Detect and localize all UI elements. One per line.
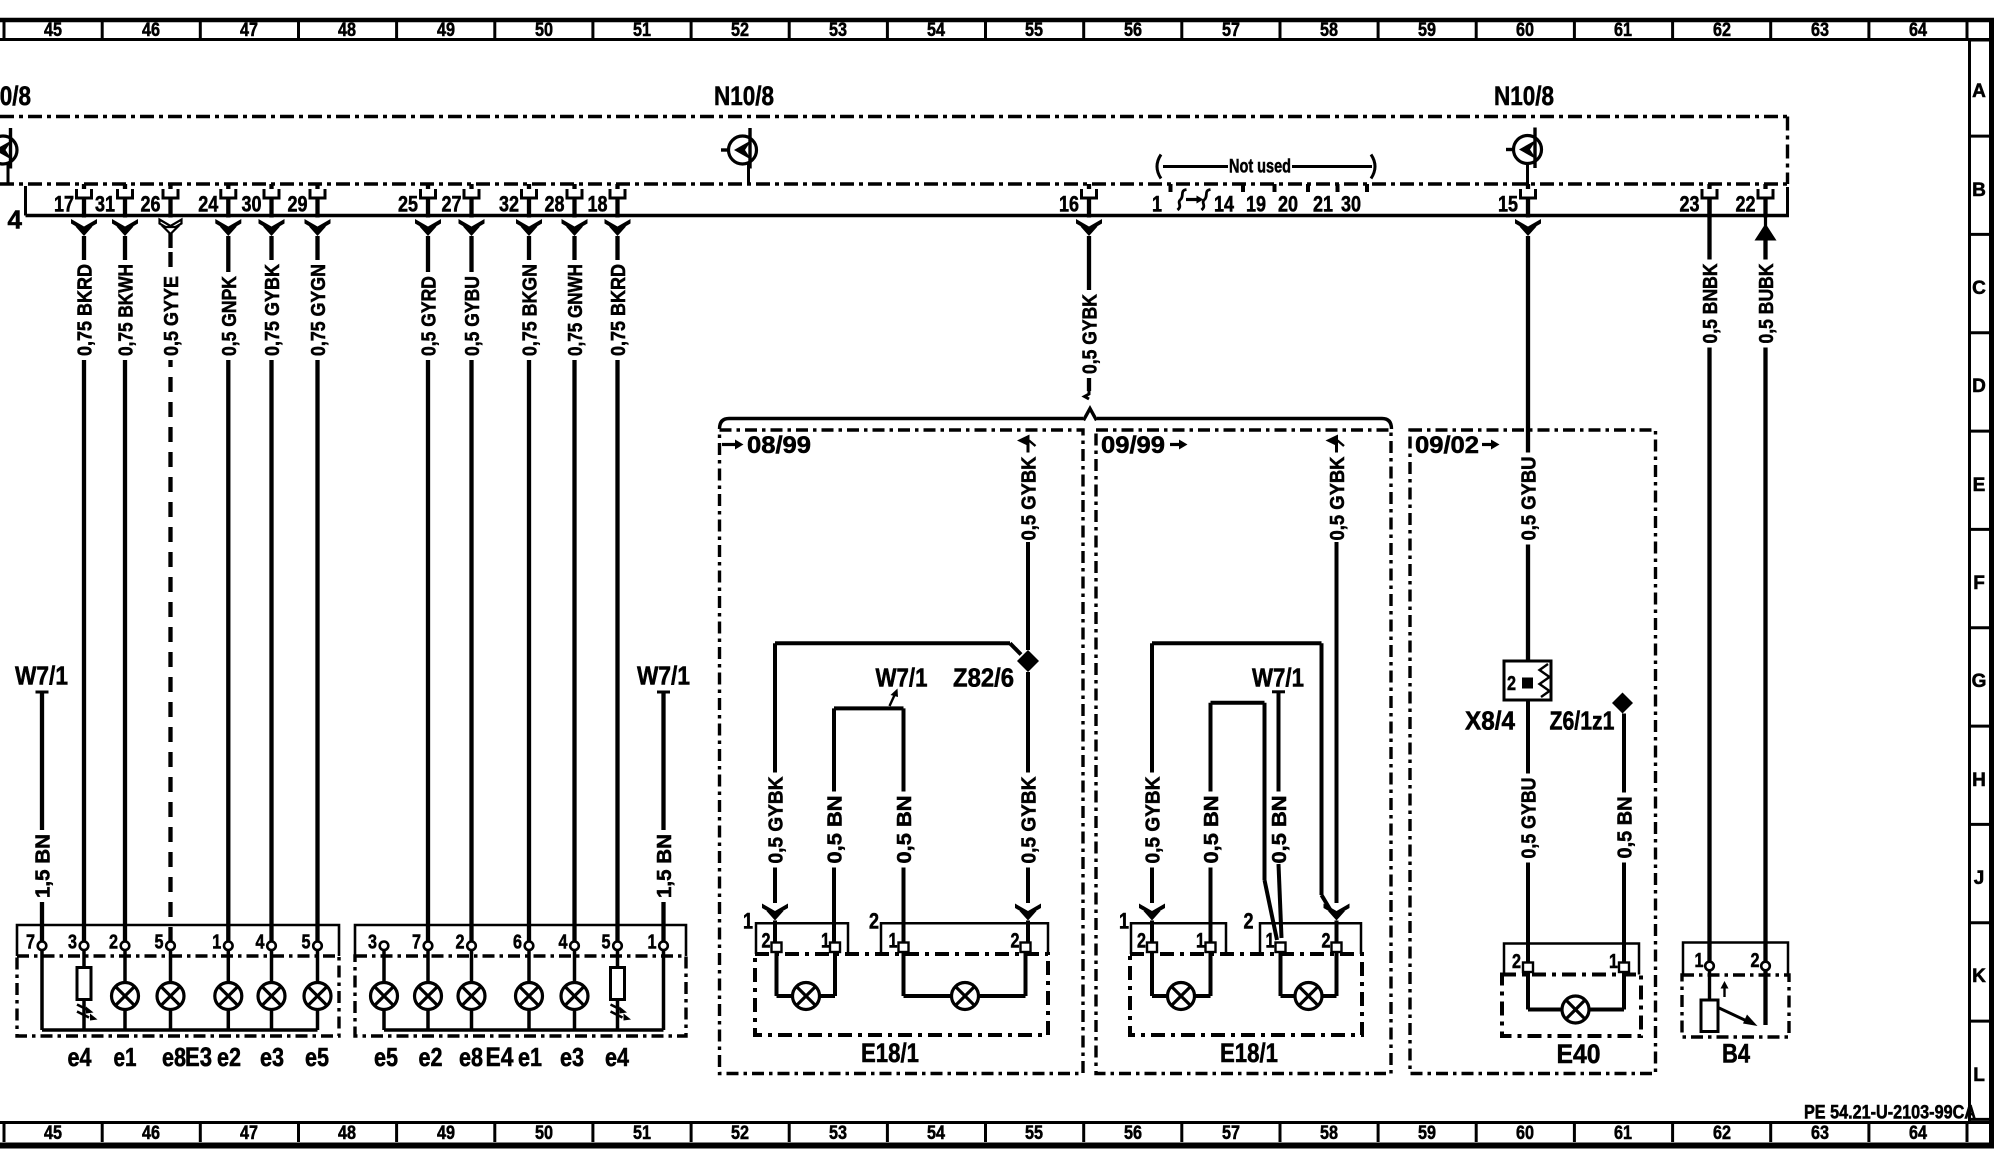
svg-text:5: 5 [302,932,311,954]
svg-text:F: F [1973,573,1985,594]
wire 0,5 GYBK (left lamp feed, 08/99) [762,643,1021,942]
svg-text:E18/1: E18/1 [861,1038,919,1068]
E3 internal bus wire [42,950,318,1030]
svg-text:1: 1 [648,932,657,954]
wire arrow at pin 17 [71,219,97,236]
E3 bulb e3 [258,950,285,1030]
wire arrow at pin 16 [1076,219,1102,236]
N10/8 pin 27 [442,184,480,218]
B4 connector [1683,943,1788,976]
wire 0,5 BUBK from pin 22 to B4 [1756,241,1778,1026]
svg-text:63: 63 [1811,1123,1829,1144]
svg-text:B: B [1972,180,1986,201]
wire 0,5 GYRD from pin to lamp unit (x=428) [419,236,441,942]
E3 bulb e8 [157,950,184,1030]
N10/8 pin 23 [1680,184,1718,218]
svg-text:0,5 GYBK: 0,5 GYBK [766,776,788,864]
svg-text:2: 2 [1512,951,1521,973]
svg-text:0,5 GYBU: 0,5 GYBU [1519,457,1541,541]
wire 0,75 GNWH from pin to lamp unit (x=574.5) [565,236,587,942]
wire 0,5 GYBK (from branch to Z82/6 and lamp, 08/99) [1015,435,1041,943]
svg-text:0,5 GYBK: 0,5 GYBK [1080,294,1102,374]
svg-text:2: 2 [456,932,465,954]
svg-text:61: 61 [1614,20,1632,41]
svg-text:1: 1 [1152,192,1162,217]
svg-text:N10/8: N10/8 [1494,81,1554,111]
svg-text:D: D [1972,376,1986,397]
svg-text:6: 6 [513,932,522,954]
svg-text:4: 4 [256,932,266,954]
"Not used" bracket over unused pins [1157,155,1375,179]
svg-text:J: J [1974,868,1985,889]
svg-text:3: 3 [68,932,77,954]
svg-text:31: 31 [95,192,115,217]
svg-text:0,75 BKWH: 0,75 BKWH [116,264,138,356]
E3 bulb e1 [112,950,139,1030]
svg-text:0,5 GYBK: 0,5 GYBK [1327,456,1349,541]
label 09/02 [1415,432,1500,459]
wire arrow at pin 25 [415,219,441,236]
svg-text:4: 4 [559,932,569,954]
label 08/99 [722,432,811,459]
E3 pin 4 terminal [256,932,276,954]
svg-text:1: 1 [743,909,753,934]
svg-text:16: 16 [1059,192,1079,217]
svg-text:e3: e3 [260,1042,284,1072]
E3 pin 3 terminal [68,932,88,954]
E40 bulb [1528,972,1624,1023]
label 09/99 [1101,432,1188,459]
svg-text:1,5 BN: 1,5 BN [654,834,676,898]
E4 pin 4 terminal [559,932,579,954]
E18/1 connector 2 (09/99) [1244,909,1362,955]
svg-text:2: 2 [1751,950,1760,972]
svg-text:45: 45 [44,20,62,41]
wire 0,5 BNBK from pin 23 to B4 [1700,198,1722,962]
svg-text:52: 52 [731,20,749,41]
svg-text:E3: E3 [185,1042,212,1072]
unused pin 1 tick [1152,184,1171,217]
E3 pin 1 terminal [212,932,232,954]
wire 0,75 GYBK from pin to lamp unit (x=271.5) [262,236,284,942]
E18/1 housing (09/99) [1130,954,1362,1035]
jumper squiggle between pins 1 and 14 [1178,190,1211,211]
svg-text:22: 22 [1736,192,1756,217]
connector X8/4 [1504,661,1551,700]
model year box 09/99 [1096,430,1391,1074]
unused pin 19 tick [1246,184,1275,217]
svg-text:59: 59 [1418,20,1436,41]
svg-text:0,5 GYBU: 0,5 GYBU [1519,778,1541,859]
svg-text:0,75 BKGN: 0,75 BKGN [520,264,542,356]
svg-text:53: 53 [829,1123,847,1144]
svg-text:0,5 GNPK: 0,5 GNPK [219,276,241,356]
svg-text:0,5 BN: 0,5 BN [825,796,847,864]
lamp unit E4 housing (dash-dot) [355,956,686,1036]
svg-text:K: K [1972,966,1986,987]
E4 illumination resistor (pin 5) [611,950,632,1030]
svg-text:5: 5 [155,932,164,954]
svg-text:18: 18 [588,192,608,217]
E18/1 connector 1 (08/99) [743,909,848,955]
unused pin 21 tick [1313,184,1338,217]
svg-text:19: 19 [1246,192,1266,217]
svg-text:E4: E4 [486,1042,514,1072]
svg-text:Z6/1z1: Z6/1z1 [1550,706,1615,736]
svg-text:W7/1: W7/1 [637,661,690,691]
E18/1 bulb left (08/99) [777,952,836,1010]
E3 bulb e5 [304,950,331,1030]
wire 0,5 GYBK from pin 16 [1080,236,1102,399]
N10/8 pin 32 [499,184,537,218]
unused pin 30 tick [1341,184,1367,217]
svg-text:62: 62 [1713,20,1731,41]
svg-text:55: 55 [1025,20,1043,41]
svg-text:15: 15 [1498,192,1518,217]
svg-text:57: 57 [1222,1123,1240,1144]
svg-text:55: 55 [1025,1123,1043,1144]
svg-text:0,75 GYBK: 0,75 GYBK [262,263,284,356]
svg-text:24: 24 [198,192,219,217]
svg-text:5: 5 [602,932,611,954]
E3 pin 2 terminal [109,932,129,954]
svg-text:51: 51 [633,1123,651,1144]
wire 0,75 BKRD from pin to lamp unit (x=84) [75,236,97,942]
E4 bulb e5 [371,950,398,1030]
svg-text:0,5 BN: 0,5 BN [894,796,916,864]
wire arrow at pin 31 [112,219,138,236]
svg-text:0,75 GYGN: 0,75 GYGN [308,264,330,356]
svg-text:0,5 GYBK: 0,5 GYBK [1019,456,1041,541]
E3 illumination resistor (pin 3) [77,950,98,1030]
svg-text:0,5 GYRD: 0,5 GYRD [419,276,441,356]
svg-text:47: 47 [240,20,258,41]
svg-text:09/02: 09/02 [1415,432,1479,459]
wire 0,75 BKRD from pin to lamp unit (x=617.5) [608,236,630,942]
E18/1 connector 2 (08/99) [869,909,1048,955]
svg-text:52: 52 [731,1123,749,1144]
svg-text:45: 45 [44,1123,62,1144]
svg-text:54: 54 [927,1123,945,1144]
E4 bulb e3 [561,950,588,1030]
svg-text:PE 54.21-U-2103-99CA: PE 54.21-U-2103-99CA [1804,1103,1976,1124]
svg-text:58: 58 [1320,1123,1338,1144]
B4 wiper arm [1718,1008,1758,1027]
svg-text:64: 64 [1909,20,1927,41]
E3 pin 5 terminal [155,932,175,954]
svg-text:4: 4 [8,205,23,235]
svg-text:63: 63 [1811,20,1829,41]
wire 0,75 GYGN from pin to lamp unit (x=317.5) [308,236,330,942]
svg-text:49: 49 [437,20,455,41]
ground bracket wire 0,5 BN (09/99) [1201,703,1277,943]
svg-text:0,5 BN: 0,5 BN [1615,797,1637,859]
svg-text:e2: e2 [419,1042,443,1072]
svg-text:23: 23 [1680,192,1700,217]
E4 pin 6 terminal [513,932,533,954]
svg-text:0,5 GYYE: 0,5 GYYE [161,276,183,356]
bottom ruler [0,1123,1990,1145]
wire 0,75 BKGN from pin to lamp unit (x=529) [520,236,542,942]
svg-text:2: 2 [1322,930,1331,953]
N10/8 pin 24 [198,184,236,218]
svg-text:1: 1 [1266,930,1275,953]
E4 bulb e8 [458,950,485,1030]
right ruler [1968,40,1989,1122]
wire 0,5 BN from Z6/1z1 to E40 [1615,714,1637,963]
svg-text:e1: e1 [114,1042,137,1072]
svg-text:47: 47 [240,1123,258,1144]
svg-text:2: 2 [869,909,879,934]
branch wire across box tops [720,409,1392,430]
svg-text:29: 29 [288,192,308,217]
svg-text:e8: e8 [162,1042,186,1072]
svg-text:59: 59 [1418,1123,1436,1144]
svg-text:C: C [1972,278,1986,299]
E4 pin 2 terminal [456,932,476,954]
connector symbol inside N10/8 (left, cut) [0,128,17,184]
svg-text:1: 1 [1196,930,1205,953]
svg-text:N10/8: N10/8 [714,81,774,111]
connector symbol inside N10/8 (right, above pin 15) [1506,128,1542,185]
wire arrow at pin 26 (open) [160,220,182,235]
page top border [0,18,1994,23]
svg-text:21: 21 [1313,192,1333,217]
N10/8 pin 18 [588,184,626,218]
svg-text:1: 1 [889,930,898,953]
N10/8 pin 17 [54,184,92,218]
control unit N10/8 box [0,117,1788,185]
svg-text:50: 50 [535,1123,553,1144]
svg-text:17: 17 [54,192,74,217]
top ruler [0,20,1990,41]
svg-text:0,5 BNBK: 0,5 BNBK [1700,263,1722,343]
wire arrow at pin 32 [516,219,542,236]
svg-text:0,5 BUBK: 0,5 BUBK [1756,263,1778,343]
svg-text:09/99: 09/99 [1101,432,1165,459]
leader to W7/1 label (08/99) [890,689,899,707]
ground W7/1 wire (09/99) [1269,692,1291,938]
svg-text:27: 27 [442,192,462,217]
svg-text:X8/4: X8/4 [1465,706,1515,736]
E40 connector [1504,944,1639,975]
svg-text:e4: e4 [68,1042,92,1072]
svg-text:26: 26 [141,192,161,217]
svg-text:Z82/6: Z82/6 [953,663,1014,693]
svg-text:2: 2 [109,932,118,954]
wire arrow at pin 22 (up) [1755,224,1777,241]
N10/8 pin 29 [288,184,326,218]
svg-text:14: 14 [1214,192,1235,217]
svg-text:2: 2 [1011,930,1020,953]
svg-text:30: 30 [242,192,262,217]
svg-text:e5: e5 [374,1042,398,1072]
svg-text:e4: e4 [605,1042,629,1072]
svg-text:1,5 BN: 1,5 BN [33,834,55,898]
solder joint Z6/1z1 [1612,693,1633,714]
svg-text:E40: E40 [1557,1039,1601,1069]
N10/8 pin 28 [545,184,583,218]
N10/8 pin 15 [1498,184,1536,218]
svg-text:0,75 BKRD: 0,75 BKRD [75,264,97,356]
svg-text:2: 2 [1137,930,1146,953]
wire 0,5 GYYE from pin to lamp unit (x=170.5) [161,233,183,942]
lamp unit E4 connector strip [355,925,686,956]
svg-text:53: 53 [829,20,847,41]
wire 0,5 GYBU from pin to lamp unit (x=471.5) [462,236,484,942]
svg-text:25: 25 [398,192,418,217]
B4 variable arrow [1721,981,1729,997]
svg-text:Not used: Not used [1229,157,1291,178]
B4 housing [1682,975,1789,1037]
wire 0,5 GYBK from branch (09/99) [1324,435,1350,943]
svg-text:1: 1 [1609,951,1618,973]
page bottom border [0,1143,1994,1149]
svg-text:51: 51 [633,20,651,41]
svg-text:e2: e2 [217,1042,241,1072]
N10/8 pin 31 [95,184,133,218]
svg-text:L: L [1973,1065,1985,1086]
svg-text:1: 1 [212,932,221,954]
svg-text:50: 50 [535,20,553,41]
svg-text:49: 49 [437,1123,455,1144]
ground junction wire W7/1 (08/99) [825,708,917,942]
svg-text:62: 62 [1713,1123,1731,1144]
wire arrow at pin 27 [459,219,485,236]
E40 housing [1502,975,1641,1037]
svg-text:H: H [1972,770,1986,791]
svg-text:7: 7 [412,932,421,954]
wire 0,5 GYBK bracket (09/99) [1139,643,1331,942]
N10/8 pin 22 [1736,184,1774,218]
wire 0,75 BKWH from pin to lamp unit (x=125) [116,236,138,942]
svg-text:32: 32 [499,192,519,217]
svg-text:57: 57 [1222,20,1240,41]
svg-text:48: 48 [338,1123,356,1144]
svg-text:48: 48 [338,20,356,41]
svg-text:0,5 BN: 0,5 BN [1269,796,1291,864]
wire arrow at pin 29 [305,219,331,236]
N10/8 pin 26 [141,184,179,218]
svg-text:0,5 GYBK: 0,5 GYBK [1143,776,1165,864]
E18/1 connector 1 (09/99) [1119,909,1226,955]
svg-text:61: 61 [1614,1123,1632,1144]
svg-text:1: 1 [1695,950,1704,972]
N10/8 pin 30 [242,184,280,218]
svg-text:W7/1: W7/1 [15,661,68,691]
B4 sender resistor [1701,970,1718,1032]
svg-text:e1: e1 [518,1042,542,1072]
unused pin 14 tick [1214,184,1243,217]
svg-text:64: 64 [1909,1123,1927,1144]
svg-text:56: 56 [1124,20,1142,41]
svg-text:20: 20 [1278,192,1298,217]
solder joint Z82/6 [1017,650,1039,672]
svg-text:A: A [1972,81,1986,102]
svg-text:08/99: 08/99 [747,432,811,459]
svg-text:46: 46 [142,20,160,41]
N10/8 pin 16 [1059,184,1097,218]
E3 bulb e2 [215,950,242,1030]
E4 internal bus wire [384,950,664,1030]
E3 pin 7 terminal [26,932,46,954]
svg-text:56: 56 [1124,1123,1142,1144]
svg-text:W7/1: W7/1 [876,663,928,693]
E3 pin 5 terminal [302,932,322,954]
ground W7/1 (right of E4) [637,661,690,942]
svg-text:e3: e3 [560,1042,584,1072]
svg-text:E: E [1973,475,1986,496]
connector 4 harness line [26,186,1790,216]
wire arrow at pin 28 [562,219,588,236]
model year box 09/02 [1410,430,1656,1074]
svg-text:58: 58 [1320,20,1338,41]
E4 pin 7 terminal [412,932,432,954]
svg-text:E18/1: E18/1 [1220,1038,1278,1068]
svg-text:2: 2 [762,930,771,953]
svg-text:e5: e5 [305,1042,329,1072]
connector symbol inside N10/8 (center) [721,128,757,184]
lamp unit E3 housing (dash-dot) [17,956,339,1036]
svg-text:B4: B4 [1722,1039,1750,1069]
svg-text:N10/8: N10/8 [0,81,31,111]
svg-text:7: 7 [26,932,35,954]
E4 pin 3 terminal [368,932,388,954]
svg-text:0,75 GNWH: 0,75 GNWH [565,264,587,356]
E4 pin 5 terminal [602,932,622,954]
wire arrow at pin 24 [215,219,241,236]
E18/1 bulb left (09/99) [1152,952,1211,1010]
svg-text:28: 28 [545,192,565,217]
svg-text:54: 54 [927,20,945,41]
E4 bulb e2 [415,950,442,1030]
svg-text:3: 3 [368,932,377,954]
E18/1 housing (08/99) [755,954,1048,1035]
svg-text:G: G [1972,671,1987,692]
E18/1 bulb right (08/99) [904,952,1026,1010]
unused pin 20 tick [1278,184,1308,217]
E4 pin 1 terminal [648,932,668,954]
wire 0,5 GNPK from pin to lamp unit (x=228.3) [219,236,241,942]
svg-text:60: 60 [1516,20,1534,41]
wire 0,5 GYBU from X8/4 to E40 [1519,700,1541,963]
svg-text:0,5 GYBK: 0,5 GYBK [1019,776,1041,864]
svg-text:0,5 GYBU: 0,5 GYBU [462,276,484,356]
right page border [1989,18,1994,1148]
N10/8 pin 25 [398,184,436,218]
svg-text:0,5 BN: 0,5 BN [1201,796,1223,864]
ground W7/1 (left) [15,661,68,942]
svg-text:60: 60 [1516,1123,1534,1144]
wire arrow at pin 30 [259,219,285,236]
wire 0,5 GYBU from pin 15 [1519,236,1541,661]
wire arrow at pin 18 [605,219,631,236]
wire arrow at pin 15 [1515,219,1541,236]
svg-text:0,75 BKRD: 0,75 BKRD [608,264,630,356]
E4 bulb e1 [516,950,543,1030]
svg-text:e8: e8 [459,1042,483,1072]
svg-text:2: 2 [1244,909,1254,934]
model year box 08/99 [720,430,1084,1074]
svg-text:W7/1: W7/1 [1252,663,1304,693]
svg-text:1: 1 [1119,909,1129,934]
svg-text:46: 46 [142,1123,160,1144]
lamp unit E3 connector strip [17,925,339,956]
svg-text:2: 2 [1507,673,1516,695]
svg-text:30: 30 [1341,192,1361,217]
E18/1 bulb right (09/99) [1281,952,1337,1010]
